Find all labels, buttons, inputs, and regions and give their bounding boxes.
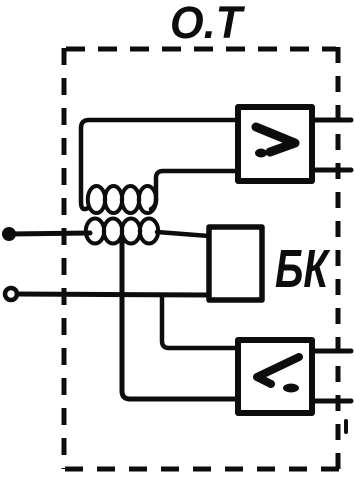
transformer T primary winding	[86, 219, 158, 244]
terminal X1 (filled)	[2, 227, 16, 241]
dashed enclosure border (bottom side)	[65, 467, 348, 472]
wire center tap to amp A2 lower input	[122, 241, 238, 399]
transformer T secondary winding	[88, 186, 156, 213]
block BK box	[209, 227, 262, 300]
wire X1 to primary winding	[9, 233, 90, 234]
amplifier A1 symbol >	[256, 127, 295, 152]
wire X2 to BK block (lower input)	[17, 294, 209, 295]
wire secondary left lead to amp A1 upper input	[81, 120, 238, 209]
wire A2 upper output	[312, 349, 351, 354]
dashed enclosure border (left side)	[62, 48, 67, 469]
amplifier A2 symbol <	[257, 357, 299, 384]
label BK	[275, 239, 331, 299]
svg-text:O.T: O.T	[170, 0, 245, 48]
amplifier A2 box	[238, 340, 312, 413]
dash artifact bottom right	[344, 421, 348, 432]
wire node junction to amp A2 upper input	[162, 295, 238, 348]
amplifier A1 box	[238, 107, 312, 181]
title O.T	[170, 0, 245, 48]
dashed enclosure border (right side)	[336, 47, 341, 469]
wire A1 upper output	[312, 118, 351, 123]
wire A2 lower output	[312, 399, 351, 404]
wire secondary right lead to amp A1 lower input	[151, 171, 238, 209]
svg-text:БК: БК	[275, 239, 331, 299]
wire primary right lead to BK block (upper input)	[157, 232, 209, 236]
terminal X2 (open)	[5, 288, 17, 300]
wire A1 lower output	[312, 168, 351, 173]
dashed enclosure border (top side)	[66, 47, 336, 52]
